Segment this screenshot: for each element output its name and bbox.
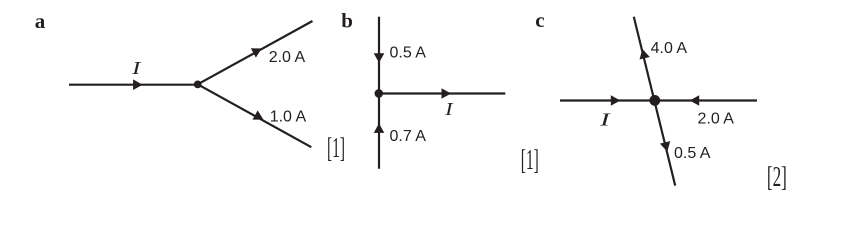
svg-text:0.5 A: 0.5 A [674,145,711,162]
arrow: 0.5 A downward into junction (figure b) [374,53,385,63]
arrow: current I direction (figure a) [133,79,143,90]
wire: horizontal conductor (figure c) [560,99,757,101]
svg-text:[2]: [2] [767,162,787,193]
wire: horizontal output lead (figure b) [379,92,506,94]
wire: lower output branch (figure a) [198,84,312,147]
wire: upper output branch (figure a) [198,21,313,84]
svg-text:1.0 A: 1.0 A [270,108,307,125]
wire: slanted conductor (figure c) [634,17,675,186]
arrow: current I rightward into junction (figure c) [611,95,621,106]
wire: input lead into junction (figure a) [69,84,198,86]
arrow: 0.7 A upward into junction (figure b) [374,123,385,132]
svg-text:I: I [599,109,612,129]
svg-text:b: b [341,9,353,33]
wire: vertical conductor (figure b) [378,17,380,169]
svg-text:a: a [35,9,46,33]
svg-text:0.7 A: 0.7 A [390,128,427,145]
svg-text:2.0 A: 2.0 A [698,111,735,128]
node: junction dot (figure b) [375,89,384,98]
svg-text:I: I [131,58,142,78]
svg-text:c: c [535,8,544,32]
svg-text:2.0 A: 2.0 A [269,49,306,66]
svg-text:[1]: [1] [521,145,539,176]
arrow: 2.0 A branch direction (figure a) [251,48,262,57]
arrow: 2.0 A leftward into junction (figure c) [690,95,700,106]
arrow: 1.0 A branch direction (figure a) [253,110,264,119]
svg-text:I: I [444,99,454,119]
arrow: 0.5 A downward out of junction (figure c) [660,141,670,152]
node: junction dot (figure a) [194,81,202,89]
svg-text:[1]: [1] [327,133,345,164]
arrow: 4.0 A upward out of junction (figure c) [640,49,650,60]
svg-text:0.5 A: 0.5 A [390,45,427,62]
svg-text:4.0 A: 4.0 A [651,40,688,57]
arrow: current I direction (figure b) [442,88,452,99]
node: junction dot (figure c) [649,95,660,106]
